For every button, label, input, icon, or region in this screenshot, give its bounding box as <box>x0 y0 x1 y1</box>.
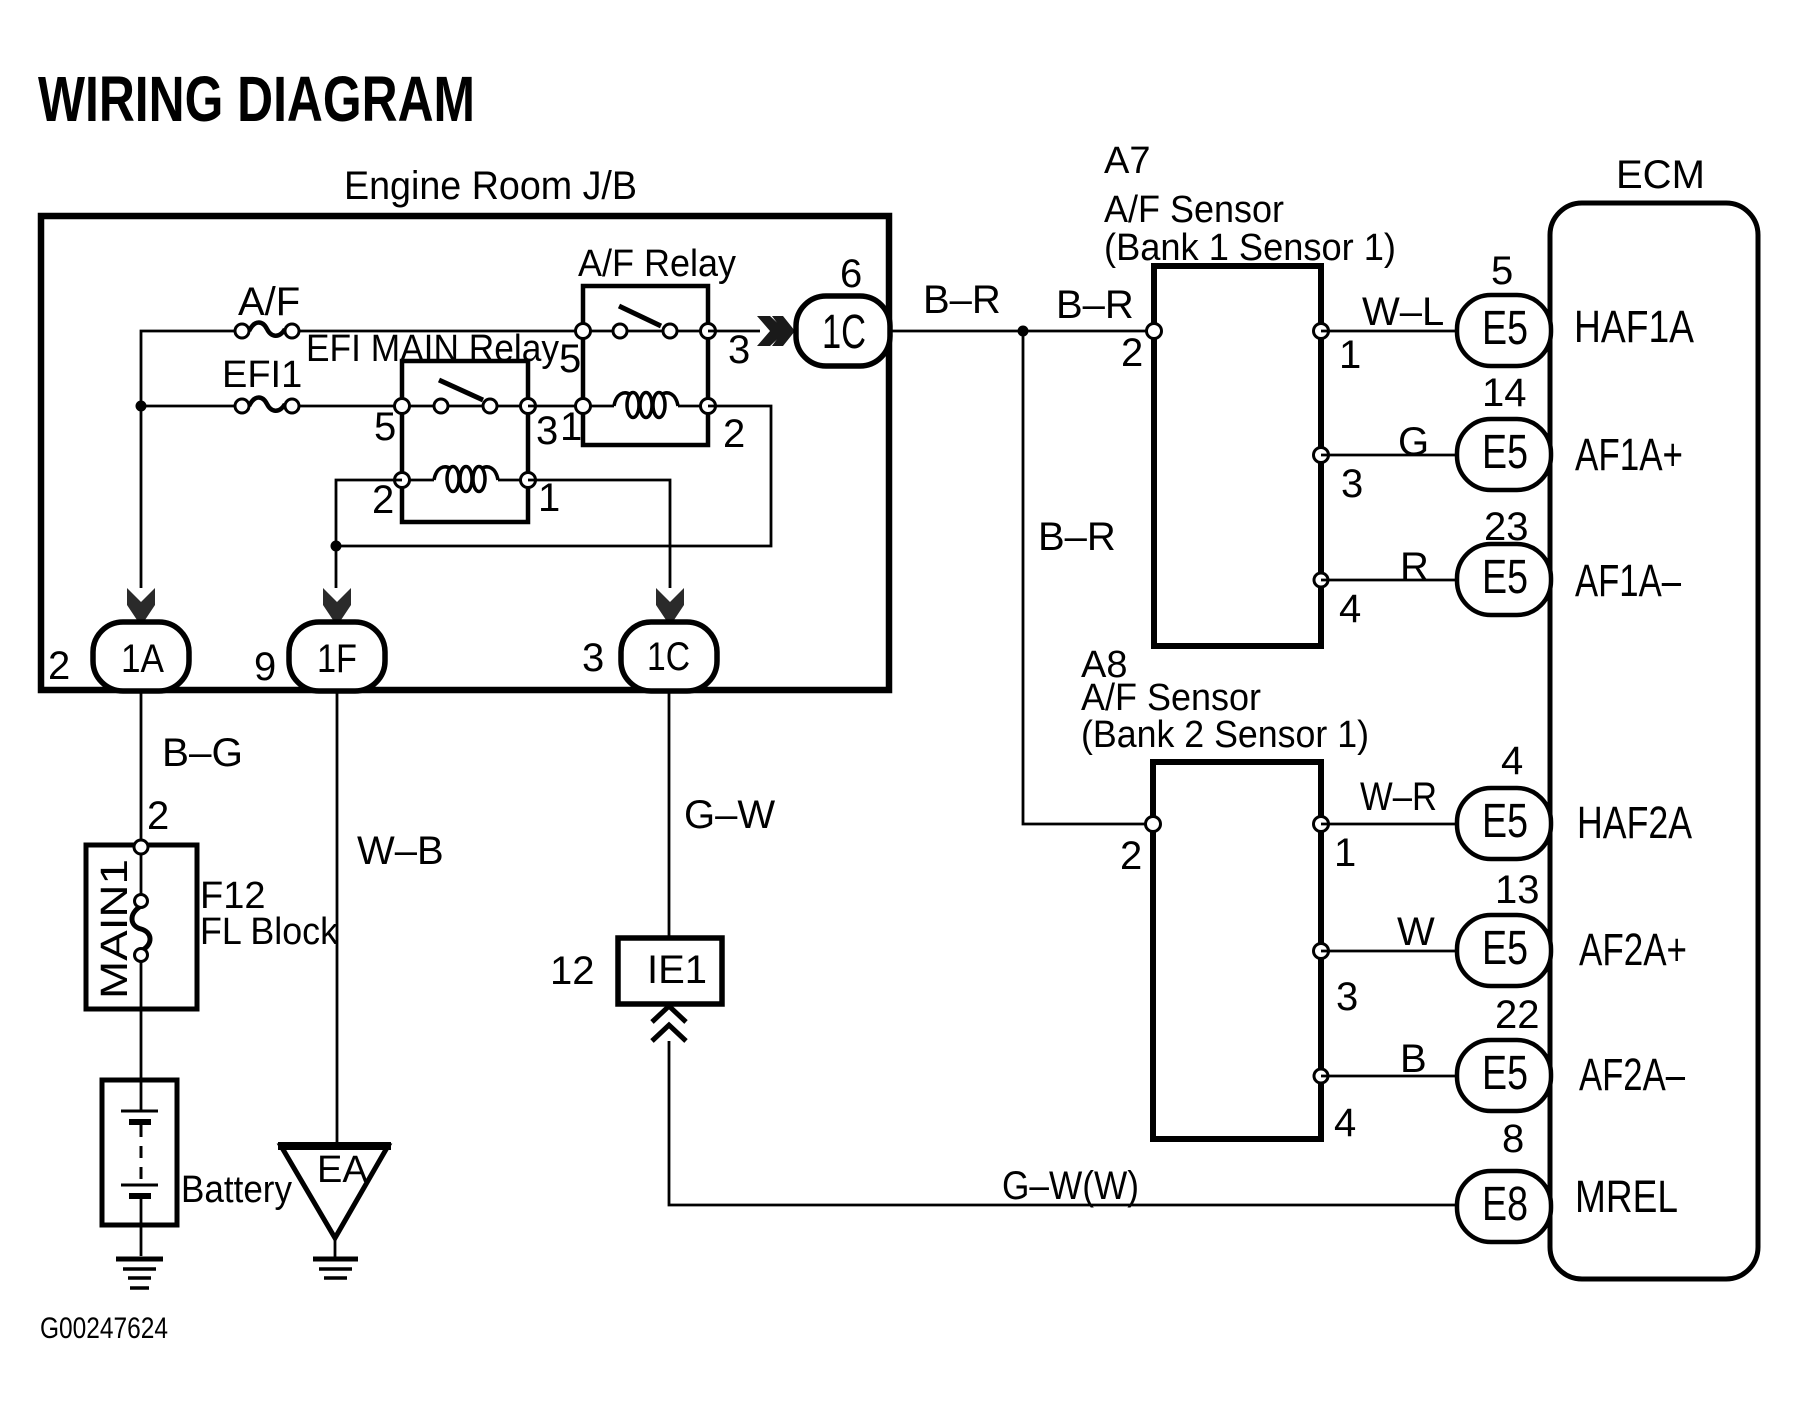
svg-text:A/F Sensor: A/F Sensor <box>1104 189 1284 231</box>
connector E5 AF2A+ <box>1457 915 1551 986</box>
connector E5 AF2A- <box>1457 1040 1551 1111</box>
wire B-R vertical to A8 <box>1023 331 1153 824</box>
connector E5 HAF2A <box>1457 788 1551 859</box>
svg-text:B–R: B–R <box>923 278 1001 322</box>
connector 1F <box>289 622 385 691</box>
svg-text:MREL: MREL <box>1575 1171 1678 1222</box>
svg-text:W–L: W–L <box>1362 290 1444 334</box>
component A8 A/F sensor box <box>1146 762 1329 1139</box>
svg-text:(Bank 2 Sensor 1): (Bank 2 Sensor 1) <box>1081 714 1369 756</box>
svg-text:22: 22 <box>1495 993 1540 1037</box>
svg-text:EFI1: EFI1 <box>222 354 302 396</box>
svg-text:1: 1 <box>560 405 582 449</box>
svg-text:EA: EA <box>317 1149 368 1191</box>
svg-text:1: 1 <box>538 476 560 520</box>
arrow down to 1A <box>127 588 155 626</box>
svg-text:3: 3 <box>728 328 750 372</box>
svg-text:13: 13 <box>1495 868 1540 912</box>
svg-text:EFI MAIN Relay: EFI MAIN Relay <box>306 328 559 370</box>
svg-text:1C: 1C <box>822 306 866 359</box>
arrow chevrons below IE1 <box>652 1006 686 1041</box>
svg-text:A/F Sensor: A/F Sensor <box>1081 677 1261 719</box>
svg-text:B–G: B–G <box>162 731 243 775</box>
svg-text:AF1A–: AF1A– <box>1575 555 1681 606</box>
svg-text:HAF1A: HAF1A <box>1574 301 1694 352</box>
svg-text:1C: 1C <box>647 635 690 679</box>
wire A/F relay coil pin2 return <box>336 406 771 546</box>
svg-text:G–W: G–W <box>684 793 775 837</box>
svg-text:E5: E5 <box>1482 922 1528 975</box>
connector E5 HAF1A <box>1457 295 1551 366</box>
svg-text:MAIN1: MAIN1 <box>94 859 136 999</box>
svg-text:5: 5 <box>1491 249 1513 293</box>
wire left vertical to 1A <box>140 406 143 588</box>
arrow down to 1C <box>656 588 684 626</box>
connector E5 AF1A- <box>1457 544 1551 615</box>
svg-text:IE1: IE1 <box>647 948 707 992</box>
svg-text:4: 4 <box>1501 739 1523 783</box>
svg-text:5: 5 <box>559 337 581 381</box>
svg-text:Engine Room J/B: Engine Room J/B <box>344 164 637 208</box>
wire EFI MAIN coil pin2 to 1F <box>336 480 402 588</box>
node junction B-R <box>1018 326 1029 337</box>
node junction 1F wire <box>331 541 342 552</box>
svg-text:G: G <box>1398 420 1429 464</box>
fuse A/F <box>235 323 299 339</box>
wire R <box>1321 579 1457 582</box>
svg-text:2: 2 <box>147 794 169 838</box>
svg-text:G–W(W): G–W(W) <box>1002 1164 1139 1208</box>
svg-text:B–R: B–R <box>1038 515 1116 559</box>
svg-text:ECM: ECM <box>1616 153 1705 197</box>
svg-text:(Bank 1 Sensor 1): (Bank 1 Sensor 1) <box>1104 227 1396 269</box>
wire 1F to EA ground <box>336 691 339 1146</box>
svg-text:W–R: W–R <box>1360 775 1437 819</box>
wire EFI1 line <box>141 405 234 408</box>
arrow down to 1F <box>323 588 351 626</box>
wire W <box>1321 950 1457 953</box>
svg-text:E8: E8 <box>1482 1178 1528 1231</box>
wire IE1 to MREL <box>669 1041 1457 1205</box>
svg-text:2: 2 <box>372 478 394 522</box>
svg-text:2: 2 <box>48 644 70 688</box>
svg-text:2: 2 <box>1121 331 1143 375</box>
svg-text:1A: 1A <box>121 637 164 681</box>
svg-text:1F: 1F <box>317 637 357 681</box>
connector E5 AF1A+ <box>1457 419 1551 490</box>
wire B <box>1321 1075 1457 1078</box>
svg-text:A7: A7 <box>1104 140 1150 182</box>
wire A/F Relay pin3 to connector 1C <box>708 330 760 333</box>
wire W-R <box>1321 823 1457 826</box>
svg-text:1: 1 <box>1339 333 1361 377</box>
arrow double chevron right <box>757 316 795 346</box>
svg-text:3: 3 <box>582 636 604 680</box>
component A7 A/F sensor box <box>1147 266 1329 646</box>
svg-text:B: B <box>1400 1037 1427 1081</box>
ground below battery <box>116 1259 163 1288</box>
svg-text:5: 5 <box>374 405 396 449</box>
junction box Engine Room J/B <box>41 216 889 690</box>
svg-text:AF2A–: AF2A– <box>1579 1049 1685 1100</box>
connector IE1 <box>618 938 722 1004</box>
svg-text:FL Block: FL Block <box>200 911 339 953</box>
svg-text:4: 4 <box>1334 1101 1356 1145</box>
svg-text:A/F: A/F <box>238 280 300 324</box>
svg-text:12: 12 <box>550 949 595 993</box>
svg-text:9: 9 <box>254 645 276 689</box>
connector 1C pin 6 (top) <box>796 296 890 366</box>
wire W-L <box>1321 330 1457 333</box>
fusible link MAIN1 block <box>86 840 197 1080</box>
component ECM box <box>1550 203 1758 1279</box>
fuse EFI1 <box>235 398 299 414</box>
svg-text:AF2A+: AF2A+ <box>1579 924 1687 975</box>
ground below EA <box>313 1259 358 1278</box>
connector 1A <box>93 622 189 691</box>
wire B-R from 1C to A7 pin 2 <box>890 330 1154 333</box>
svg-text:E5: E5 <box>1482 426 1528 479</box>
svg-text:E5: E5 <box>1482 302 1528 355</box>
svg-text:14: 14 <box>1482 371 1527 415</box>
svg-text:8: 8 <box>1502 1117 1524 1161</box>
wire G <box>1321 454 1457 457</box>
svg-text:A/F Relay: A/F Relay <box>578 243 736 285</box>
wire EA apex to ground <box>334 1238 337 1257</box>
svg-text:G00247624: G00247624 <box>40 1312 168 1345</box>
svg-text:4: 4 <box>1339 587 1361 631</box>
svg-text:E5: E5 <box>1482 795 1528 848</box>
battery <box>102 1080 177 1256</box>
svg-text:Battery: Battery <box>181 1169 292 1211</box>
ground EA triangle <box>278 1146 391 1238</box>
svg-text:E5: E5 <box>1482 551 1528 604</box>
svg-text:3: 3 <box>536 409 558 453</box>
wire 1C to IE1 <box>668 691 671 938</box>
svg-text:W: W <box>1397 910 1435 954</box>
wire 1A to MAIN1 <box>140 691 143 847</box>
svg-text:3: 3 <box>1341 462 1363 506</box>
connector E8 MREL <box>1457 1171 1551 1242</box>
relay A/F Relay <box>528 286 716 445</box>
wire EFI MAIN coil pin1 to 1C <box>528 480 670 588</box>
node junction left vertical x EFI1 <box>136 401 147 412</box>
svg-text:3: 3 <box>1336 975 1358 1019</box>
svg-text:1: 1 <box>1334 831 1356 875</box>
svg-text:2: 2 <box>1120 834 1142 878</box>
svg-text:W–B: W–B <box>357 829 444 873</box>
svg-text:B–R: B–R <box>1056 283 1134 327</box>
wire A/F feed top <box>141 331 234 406</box>
svg-text:6: 6 <box>840 252 862 296</box>
connector 1C (bottom) <box>621 622 717 691</box>
svg-text:2: 2 <box>723 412 745 456</box>
svg-text:AF1A+: AF1A+ <box>1575 429 1683 480</box>
svg-text:HAF2A: HAF2A <box>1577 797 1692 848</box>
svg-text:R: R <box>1400 545 1429 589</box>
relay EFI MAIN Relay <box>395 361 536 522</box>
svg-text:WIRING DIAGRAM: WIRING DIAGRAM <box>38 63 475 135</box>
svg-text:E5: E5 <box>1482 1047 1528 1100</box>
